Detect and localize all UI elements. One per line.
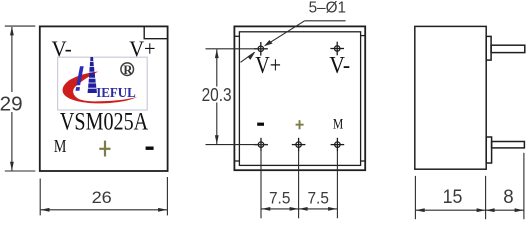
svg-text:V-: V- [329, 52, 350, 79]
svg-text:15: 15 [443, 187, 463, 208]
svg-text:7.5: 7.5 [308, 189, 329, 207]
svg-text:IEFUL: IEFUL [96, 85, 136, 100]
svg-text:7.5: 7.5 [269, 189, 290, 207]
svg-text:M: M [333, 117, 343, 133]
svg-text:VSM025A: VSM025A [60, 107, 149, 136]
svg-text:V+: V+ [255, 52, 281, 79]
svg-text:20.3: 20.3 [202, 85, 232, 105]
svg-text:26: 26 [92, 189, 112, 207]
svg-text:29: 29 [0, 92, 23, 115]
svg-text:R: R [123, 63, 133, 77]
svg-text:5–Ø1: 5–Ø1 [309, 0, 346, 17]
svg-text:8: 8 [503, 187, 513, 208]
svg-text:M: M [54, 136, 67, 156]
